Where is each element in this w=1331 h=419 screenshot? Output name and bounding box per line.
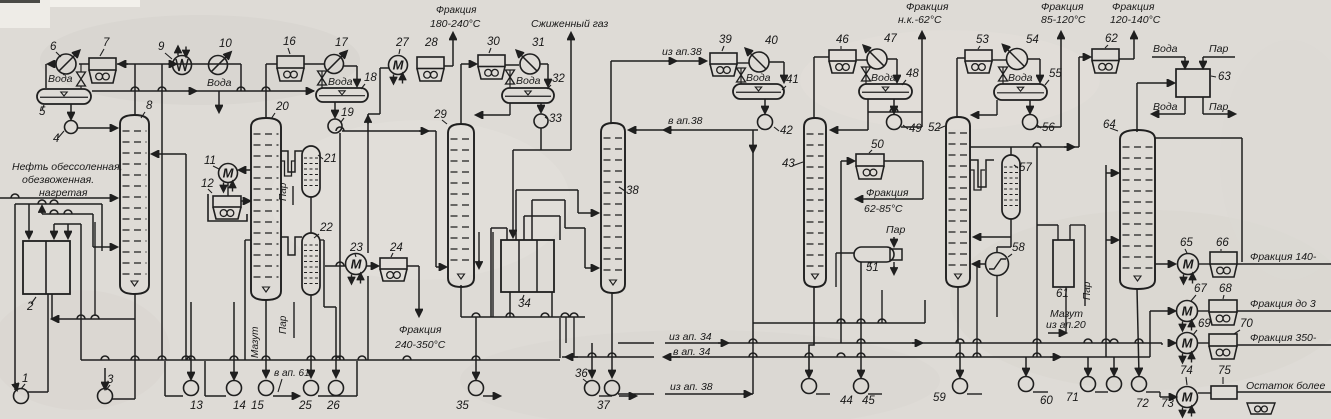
wire furnace right risers — [77, 222, 99, 360]
wire pump33 to gas line — [513, 33, 571, 237]
label 1 — [21, 373, 28, 389]
svg-text:18: 18 — [364, 72, 377, 84]
drum 41 — [733, 84, 784, 99]
column 64 — [1120, 130, 1155, 289]
pump 35 — [469, 381, 501, 397]
svg-text:21: 21 — [323, 153, 337, 165]
label Вода 10 — [207, 77, 232, 89]
box 63 — [1176, 69, 1210, 97]
label 11 — [204, 155, 219, 169]
svg-text:14: 14 — [233, 400, 246, 412]
wire fraction 140 out — [1237, 263, 1331, 265]
svg-text:11: 11 — [204, 155, 216, 167]
label 53 — [976, 34, 989, 49]
label fraction 62-85 — [864, 187, 909, 215]
mixer 69 — [1168, 333, 1198, 363]
svg-text:7: 7 — [103, 37, 110, 49]
label Пар 63 out — [1209, 101, 1228, 113]
svg-text:49: 49 — [909, 123, 922, 135]
column 22 — [302, 233, 320, 295]
heat exchanger 6 — [56, 51, 80, 75]
wire riser to mixer27 — [368, 68, 389, 131]
label 41 — [782, 74, 799, 90]
label 32 — [547, 73, 565, 89]
pump 59 — [953, 343, 983, 394]
svg-text:67: 67 — [1194, 283, 1207, 295]
label 46 — [836, 34, 849, 49]
mixer 74 — [1177, 387, 1198, 417]
svg-text:180-240°C: 180-240°C — [430, 18, 481, 30]
heat exchanger 47 — [864, 46, 888, 70]
wire в ап.38 — [629, 129, 758, 131]
label 25 — [298, 400, 312, 412]
air cooler fan 75 bottom — [1247, 403, 1275, 414]
wire feed line — [0, 194, 117, 198]
valve drum55 — [999, 67, 1008, 84]
label 23 — [349, 242, 363, 257]
wire fraction 350 out — [1237, 344, 1331, 346]
wire fraction do out — [1237, 310, 1331, 312]
pump 42 — [758, 99, 773, 130]
wire steam to 51 — [893, 237, 895, 274]
label 20 — [271, 101, 289, 119]
column 57 — [1002, 155, 1020, 219]
wire 24 out fraction 240-350 — [407, 266, 419, 316]
label 47 — [884, 33, 897, 45]
svg-text:35: 35 — [456, 400, 469, 412]
svg-text:M: M — [393, 58, 405, 73]
heat exchanger 54 — [1003, 45, 1028, 70]
svg-text:Сжиженный газ: Сжиженный газ — [531, 18, 608, 30]
air cooler 16 — [277, 56, 304, 81]
svg-text:Фракция: Фракция — [1112, 1, 1155, 13]
label 62 — [1105, 33, 1118, 48]
heat exchanger 58 — [986, 253, 1009, 276]
wire 61 stubs — [1037, 225, 1085, 306]
label 28 — [424, 37, 438, 49]
wire 30 to 31 — [505, 64, 519, 66]
svg-text:Вода: Вода — [1153, 43, 1178, 55]
label Вода 54 — [1008, 72, 1033, 84]
svg-text:36: 36 — [575, 368, 588, 380]
heat exchanger 31 — [517, 51, 541, 75]
svg-text:4: 4 — [53, 133, 59, 145]
label 74 — [1180, 365, 1193, 385]
wire x219 reflux col20 — [218, 91, 220, 112]
svg-text:41: 41 — [786, 74, 799, 86]
label Пар 51 — [886, 224, 905, 236]
label 19 — [341, 107, 354, 122]
label 72 — [1136, 398, 1149, 410]
svg-text:1: 1 — [22, 373, 28, 385]
column 20 — [251, 118, 281, 300]
wire col29 bottom to pump35 — [461, 232, 493, 379]
pump 71 — [1081, 357, 1109, 392]
label Вода 47 — [871, 72, 896, 84]
svg-text:120-140°С: 120-140°С — [1110, 14, 1161, 26]
label 64 — [1103, 119, 1118, 131]
label 66 — [1216, 237, 1229, 251]
label 3 — [106, 374, 114, 390]
svg-text:57: 57 — [1019, 162, 1032, 174]
svg-text:Пар: Пар — [886, 224, 905, 236]
svg-text:66: 66 — [1216, 237, 1229, 249]
label 61 — [1056, 288, 1069, 300]
label 33 — [545, 113, 562, 125]
svg-text:74: 74 — [1180, 365, 1193, 377]
label Вода 17 — [328, 76, 353, 88]
wire 51 to pump45 — [860, 262, 862, 377]
wire fraction 85-120 — [1037, 32, 1061, 127]
pump 60 — [1019, 357, 1049, 392]
air cooler 7 — [89, 58, 116, 83]
wire col22 to pump26 — [320, 240, 336, 377]
wire cooler50 in — [837, 161, 854, 343]
air cooler 24 — [380, 258, 407, 281]
air cooler 30 — [478, 55, 505, 79]
wire v38 pumps — [592, 293, 612, 377]
svg-text:нагретая: нагретая — [39, 187, 88, 199]
svg-text:M: M — [1183, 257, 1195, 272]
label 30 — [487, 36, 500, 53]
svg-text:44: 44 — [840, 395, 853, 407]
svg-text:240-350°C: 240-350°C — [394, 339, 446, 351]
wire furnace transfer to col8 — [93, 204, 117, 251]
valve drum18 — [318, 71, 327, 88]
svg-text:23: 23 — [349, 242, 363, 254]
svg-text:28: 28 — [424, 37, 438, 49]
label в ап.34 — [673, 346, 711, 358]
valve drum5 — [77, 64, 86, 89]
label fraction 240-350 — [394, 324, 446, 351]
label 34 — [518, 295, 531, 310]
wire x340 — [339, 133, 341, 360]
svg-text:22: 22 — [319, 222, 333, 234]
wire mazut arrow — [1048, 287, 1066, 333]
mixer 27 — [389, 56, 408, 84]
label 54 — [1026, 34, 1039, 46]
wire col20 bottom to pump15 — [265, 300, 267, 377]
svg-text:69: 69 — [1198, 318, 1211, 330]
svg-text:85-120°С: 85-120°С — [1041, 14, 1086, 26]
wire col29 riser — [461, 64, 476, 124]
wire 7 to 6 — [79, 63, 89, 65]
wire furnace manifold y224 — [54, 223, 81, 225]
wire 63 water out — [1152, 97, 1185, 114]
wire drum48 vapor y112 — [868, 111, 922, 113]
wire col8 bottoms loop — [52, 294, 135, 399]
wire col64 bottom — [1137, 289, 1139, 375]
svg-text:н.к.-62°С: н.к.-62°С — [898, 14, 942, 26]
label fraction do — [1250, 298, 1316, 310]
label 70 — [1234, 318, 1253, 334]
svg-text:45: 45 — [862, 395, 875, 407]
pump 44 — [802, 287, 831, 394]
svg-text:Вода: Вода — [328, 76, 353, 88]
svg-text:9: 9 — [158, 41, 165, 53]
label 18 — [361, 72, 377, 89]
wire furnace manifold y204 — [15, 200, 102, 204]
svg-text:40: 40 — [765, 35, 778, 47]
svg-text:24: 24 — [389, 242, 403, 254]
wire x977 — [976, 264, 978, 357]
pump 4 — [65, 104, 78, 134]
label 52 — [928, 122, 945, 134]
label 48 — [902, 68, 919, 85]
column 52 — [946, 117, 970, 287]
label 55 — [1045, 68, 1062, 85]
valve drum48 — [862, 67, 871, 84]
wire x186 pumparound — [152, 154, 186, 360]
wire drum55 reflux — [972, 100, 997, 115]
column 8 — [120, 115, 149, 294]
label Вода 31 — [516, 75, 541, 87]
svg-text:16: 16 — [283, 36, 296, 48]
air cooler 39 — [710, 53, 737, 76]
svg-text:58: 58 — [1012, 242, 1025, 254]
svg-text:29: 29 — [433, 109, 447, 121]
label 16 — [283, 36, 296, 54]
label Вода 63 out — [1153, 101, 1178, 113]
svg-text:63: 63 — [1218, 71, 1231, 83]
pump 33 — [534, 103, 548, 128]
wire x162 — [161, 64, 163, 360]
label 38 — [619, 185, 639, 197]
svg-text:72: 72 — [1136, 398, 1149, 410]
wire col52 riser — [957, 58, 965, 117]
wire x566 x574 — [560, 317, 574, 358]
svg-text:в ап.38: в ап.38 — [668, 115, 703, 127]
wire 16 to 17 — [304, 63, 324, 65]
svg-text:Нефть обессоленная,: Нефть обессоленная, — [12, 161, 123, 173]
wire col64 to 63 — [1137, 83, 1174, 132]
wire pump4 to col8 — [78, 127, 117, 129]
svg-text:20: 20 — [275, 101, 289, 113]
svg-text:32: 32 — [552, 73, 565, 85]
wire 63 steam in — [1203, 57, 1235, 68]
wire furnace34 inlets — [491, 228, 552, 317]
label 44 — [840, 395, 853, 407]
svg-text:70: 70 — [1240, 318, 1253, 330]
drum 5 — [37, 89, 91, 104]
label Пар 61 — [1082, 281, 1093, 300]
wire pump42 down — [752, 130, 754, 394]
wire bus iz-ap34 y343 — [618, 339, 1162, 345]
label 50 — [869, 139, 884, 153]
label 73 — [1161, 398, 1174, 410]
wire col20 riser — [266, 64, 277, 118]
svg-text:M: M — [223, 166, 235, 181]
svg-text:Вода: Вода — [48, 73, 73, 85]
air cooler 50 — [856, 154, 884, 179]
wire 17 to drum18 — [343, 66, 357, 86]
wire col38 overhead — [611, 61, 660, 123]
pump 13 — [165, 302, 199, 396]
stripper U-pipes 21 — [281, 151, 302, 176]
label 45 — [862, 395, 875, 407]
label 59 — [933, 392, 946, 404]
svg-text:17: 17 — [335, 37, 348, 49]
svg-text:Фракция: Фракция — [866, 187, 909, 199]
wire overhead line y64 — [117, 64, 241, 91]
svg-text:31: 31 — [532, 37, 545, 49]
svg-text:в ап. 34: в ап. 34 — [673, 346, 711, 358]
svg-text:33: 33 — [549, 113, 562, 125]
furnace 2 — [23, 241, 70, 294]
svg-text:68: 68 — [1219, 283, 1232, 295]
label 22 — [314, 222, 333, 238]
feed text — [12, 161, 123, 199]
wire hx58 to col52 — [973, 264, 997, 317]
wire col43 riser — [814, 57, 829, 118]
label 2 — [26, 297, 36, 313]
label 43 — [782, 158, 803, 170]
label fraction 350 — [1250, 332, 1317, 344]
label residue — [1246, 380, 1326, 392]
label 5 — [39, 105, 46, 118]
pump 3 — [98, 368, 136, 404]
box 61 — [1053, 240, 1074, 287]
column 21 — [302, 146, 320, 197]
svg-text:из ап.38: из ап.38 — [662, 46, 702, 58]
label 60 — [1040, 395, 1053, 407]
label 26 — [326, 400, 340, 412]
svg-text:42: 42 — [780, 125, 793, 137]
wire col29 feed — [436, 131, 446, 267]
svg-text:56: 56 — [1042, 122, 1055, 134]
wire col22 to pump25 — [310, 295, 312, 377]
svg-text:10: 10 — [219, 38, 232, 50]
label в ап.38 — [668, 115, 703, 127]
pump 19 — [328, 102, 342, 133]
label Мазут — [250, 327, 261, 358]
label 15 — [251, 400, 264, 412]
svg-text:60: 60 — [1040, 395, 1053, 407]
valve drum41 — [737, 68, 746, 84]
wire col57 to hx58 — [974, 147, 1011, 252]
label 71 — [1066, 392, 1079, 404]
svg-text:15: 15 — [251, 400, 264, 412]
svg-text:43: 43 — [782, 158, 795, 170]
label 12 — [201, 178, 214, 193]
svg-text:Пар: Пар — [278, 182, 289, 201]
label из ап.38 top — [662, 46, 702, 58]
mixer 65 — [1178, 254, 1199, 284]
label 7 — [100, 37, 110, 56]
svg-text:Вода: Вода — [871, 72, 896, 84]
wire col8 overhead riser — [134, 64, 136, 115]
label из ап.34 — [669, 331, 712, 343]
label fraction 85-120 — [1041, 1, 1086, 26]
scan artifact top-left white patch — [0, 0, 140, 28]
label fraction 140 — [1250, 251, 1317, 263]
label 14 — [233, 400, 246, 412]
wire 31 to drum32 — [540, 64, 548, 86]
wire furnace inlet stubs — [29, 204, 68, 238]
wire cooler50 out fraction 62-85 — [856, 161, 923, 199]
label 75 — [1218, 365, 1231, 384]
svg-text:54: 54 — [1026, 34, 1039, 46]
label 17 — [335, 37, 348, 49]
svg-text:из ап. 38: из ап. 38 — [670, 381, 713, 393]
svg-text:Фракция: Фракция — [906, 1, 949, 13]
heat exchanger 9 — [173, 47, 192, 75]
wire 63 steam out — [1203, 97, 1235, 114]
svg-text:27: 27 — [395, 37, 409, 49]
heat exchanger 10 — [209, 52, 231, 74]
svg-text:53: 53 — [976, 34, 989, 46]
label 65 — [1180, 237, 1193, 253]
wire col64 feed — [1102, 165, 1118, 357]
wire col64 side to 65 — [1155, 263, 1175, 265]
svg-text:Фракция 350-: Фракция 350- — [1250, 332, 1317, 344]
mixer 11 — [219, 164, 252, 192]
drum 32 — [502, 88, 554, 103]
svg-text:19: 19 — [341, 107, 354, 119]
wire drum48 reflux — [831, 99, 868, 130]
label 31 — [532, 37, 545, 49]
svg-text:Фракция до 3: Фракция до 3 — [1250, 298, 1316, 310]
label Пар 63 in — [1209, 43, 1228, 55]
wire pump1 to furnace — [28, 294, 48, 392]
svg-text:48: 48 — [906, 68, 919, 80]
label 40 — [765, 35, 778, 47]
svg-text:2: 2 — [26, 301, 34, 313]
svg-text:51: 51 — [866, 262, 879, 274]
svg-text:обезвоженная.: обезвоженная. — [22, 174, 94, 186]
label в ап.61 — [274, 368, 310, 392]
drum 48 — [859, 84, 912, 99]
svg-text:73: 73 — [1161, 398, 1174, 410]
svg-text:Вода: Вода — [746, 72, 771, 84]
wire 40 to drum41 — [769, 62, 784, 82]
wire bus v-ap34 y357 — [562, 311, 1164, 357]
label 29 — [433, 109, 447, 124]
wire furnace34 transfer 2 — [532, 200, 598, 268]
wire pump19 discharge line y131 — [336, 127, 436, 131]
wire furnace manifold y214 — [42, 206, 93, 214]
svg-text:39: 39 — [719, 34, 732, 46]
drum 18 — [316, 88, 368, 102]
label 49 — [903, 123, 922, 135]
wire x1037 — [1033, 147, 1041, 357]
pump 36 — [585, 381, 613, 397]
svg-text:Вода: Вода — [207, 77, 232, 89]
wire 6 to drum 5 — [46, 64, 56, 88]
svg-text:3: 3 — [107, 374, 114, 386]
label 10 — [219, 38, 232, 50]
column 43 — [804, 118, 826, 287]
svg-text:Вода: Вода — [1153, 101, 1178, 113]
svg-text:в ап. 61: в ап. 61 — [274, 368, 310, 379]
mixer 67 — [1164, 301, 1198, 331]
svg-text:Вода: Вода — [516, 75, 541, 87]
wire 39-40 — [737, 62, 749, 64]
svg-text:30: 30 — [487, 36, 500, 48]
svg-text:6: 6 — [50, 41, 57, 53]
wire col29 reflux — [476, 103, 510, 115]
label Вода 6 — [48, 73, 73, 85]
label 57 — [1014, 162, 1032, 174]
svg-text:50: 50 — [871, 139, 884, 151]
svg-text:26: 26 — [326, 400, 340, 412]
label fraction 180-240 — [430, 5, 481, 30]
air cooler 70 — [1198, 334, 1237, 359]
label 27 — [395, 37, 409, 54]
air cooler 68 — [1198, 300, 1237, 325]
mixer 23 — [325, 254, 367, 284]
wire 63 water in — [1152, 57, 1185, 68]
